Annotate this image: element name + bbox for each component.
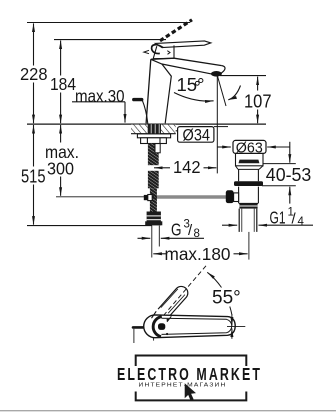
svg-text:max.180: max.180 [165, 244, 231, 264]
svg-text:Ø63: Ø63 [236, 140, 263, 156]
svg-text:G: G [171, 219, 182, 239]
svg-text:55°: 55° [212, 287, 241, 308]
svg-text:142: 142 [173, 157, 201, 177]
svg-text:/: / [188, 222, 193, 239]
svg-text:G1: G1 [270, 208, 286, 228]
svg-text:4: 4 [298, 216, 305, 228]
svg-text:max.30: max.30 [75, 86, 125, 106]
svg-text:184: 184 [50, 74, 76, 94]
svg-text:515: 515 [21, 166, 46, 186]
svg-text:8: 8 [194, 228, 200, 240]
svg-text:300: 300 [47, 159, 74, 179]
svg-text:ИНТЕРНЕТ-МАГАЗИН: ИНТЕРНЕТ-МАГАЗИН [139, 383, 227, 389]
svg-text:ELECTRO MARKET: ELECTRO MARKET [117, 364, 262, 384]
svg-text:Ø34: Ø34 [183, 125, 211, 144]
svg-text:228: 228 [20, 64, 48, 84]
svg-text:107: 107 [244, 91, 272, 111]
svg-text:40-53: 40-53 [266, 164, 312, 185]
svg-text:15°: 15° [177, 74, 205, 95]
